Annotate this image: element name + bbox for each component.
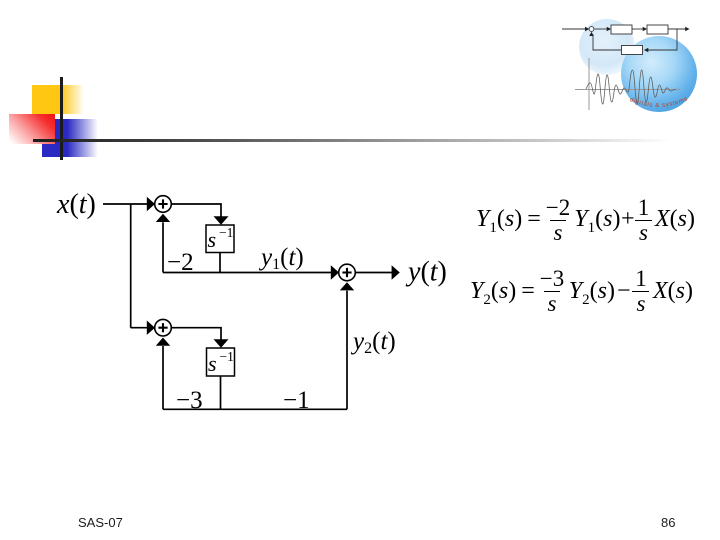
wire: input x(t) to sum1 (103, 203, 147, 205)
svg-text:−1: −1 (220, 349, 234, 364)
svg-text:y1(t): y1(t) (258, 244, 304, 273)
svg-text:−1: −1 (219, 225, 233, 240)
wire: feedback row 1 / y1 line to sum2 (163, 272, 332, 274)
integrator box 1 (206, 225, 234, 253)
footer left (78, 515, 123, 530)
logo (top right) (560, 8, 720, 123)
svg-text:−1: −1 (283, 387, 310, 414)
big blue sphere (621, 36, 697, 112)
logo arrowheads (585, 27, 690, 53)
svg-text:y(t): y(t) (405, 257, 447, 288)
decorative corner: pink/red square (9, 114, 55, 144)
arrow up into sum1 (156, 214, 170, 222)
summing junction S2 (339, 264, 356, 281)
logo box 1 (611, 25, 632, 34)
arrow into sum3 (147, 321, 155, 335)
svg-text:x(t): x(t) (56, 189, 96, 220)
svg-text:s: s (208, 351, 217, 376)
wire: branch to sum3 (131, 327, 148, 329)
wire: sum3 to integrator 2 top (171, 328, 221, 340)
logo feedback box (622, 46, 643, 55)
footer right page number (661, 515, 675, 530)
equation 2 (470, 269, 693, 313)
svg-text:−3: −3 (176, 387, 203, 414)
integrator box 2 (207, 348, 235, 376)
summing junction S3 (155, 319, 172, 336)
svg-text:s: s (208, 227, 217, 252)
decorative corner: yellow square (32, 85, 84, 114)
decorative vertical black line (60, 77, 63, 160)
arrow up into sum2 (340, 282, 354, 290)
waveform squiggle (586, 70, 676, 104)
svg-text:−2: −2 (167, 249, 194, 276)
wire: feedback 1 up to sum1 (162, 222, 164, 272)
decorative corner: blue square (42, 119, 98, 157)
wire: integrator 2 bottom down (220, 376, 222, 409)
logo mini diagram wires (562, 29, 687, 50)
logo summing circle (589, 27, 594, 32)
svg-text:y2(t): y2(t) (350, 328, 396, 357)
waveform axes (575, 58, 680, 110)
wire: feedback 2 up to sum3 (162, 346, 164, 409)
wire: y2 vertical up to sum2 (346, 291, 348, 410)
logo box 2 (647, 25, 668, 34)
arrowheads (147, 197, 400, 348)
arrow up into sum3 (156, 338, 170, 346)
wire: branch down from input (130, 204, 132, 328)
arrow down into integrator 2 (214, 339, 229, 347)
light blue circle (579, 19, 635, 75)
wire: sum2 to output arrow (355, 272, 392, 274)
equation 1 (476, 198, 695, 242)
output arrow (392, 265, 400, 279)
curved red logo text (624, 96, 695, 107)
wire: bottom feedback row (163, 408, 347, 410)
arrow into sum1 (147, 197, 155, 211)
arrow into sum2 (331, 265, 339, 279)
summing junction S1 (155, 196, 172, 213)
wire: sum1 to integrator 1 top (171, 204, 221, 217)
wire: integrator 1 bottom down (219, 253, 221, 273)
decorative horizontal gradient rule (33, 139, 671, 142)
arrow down into integrator 1 (214, 216, 229, 224)
